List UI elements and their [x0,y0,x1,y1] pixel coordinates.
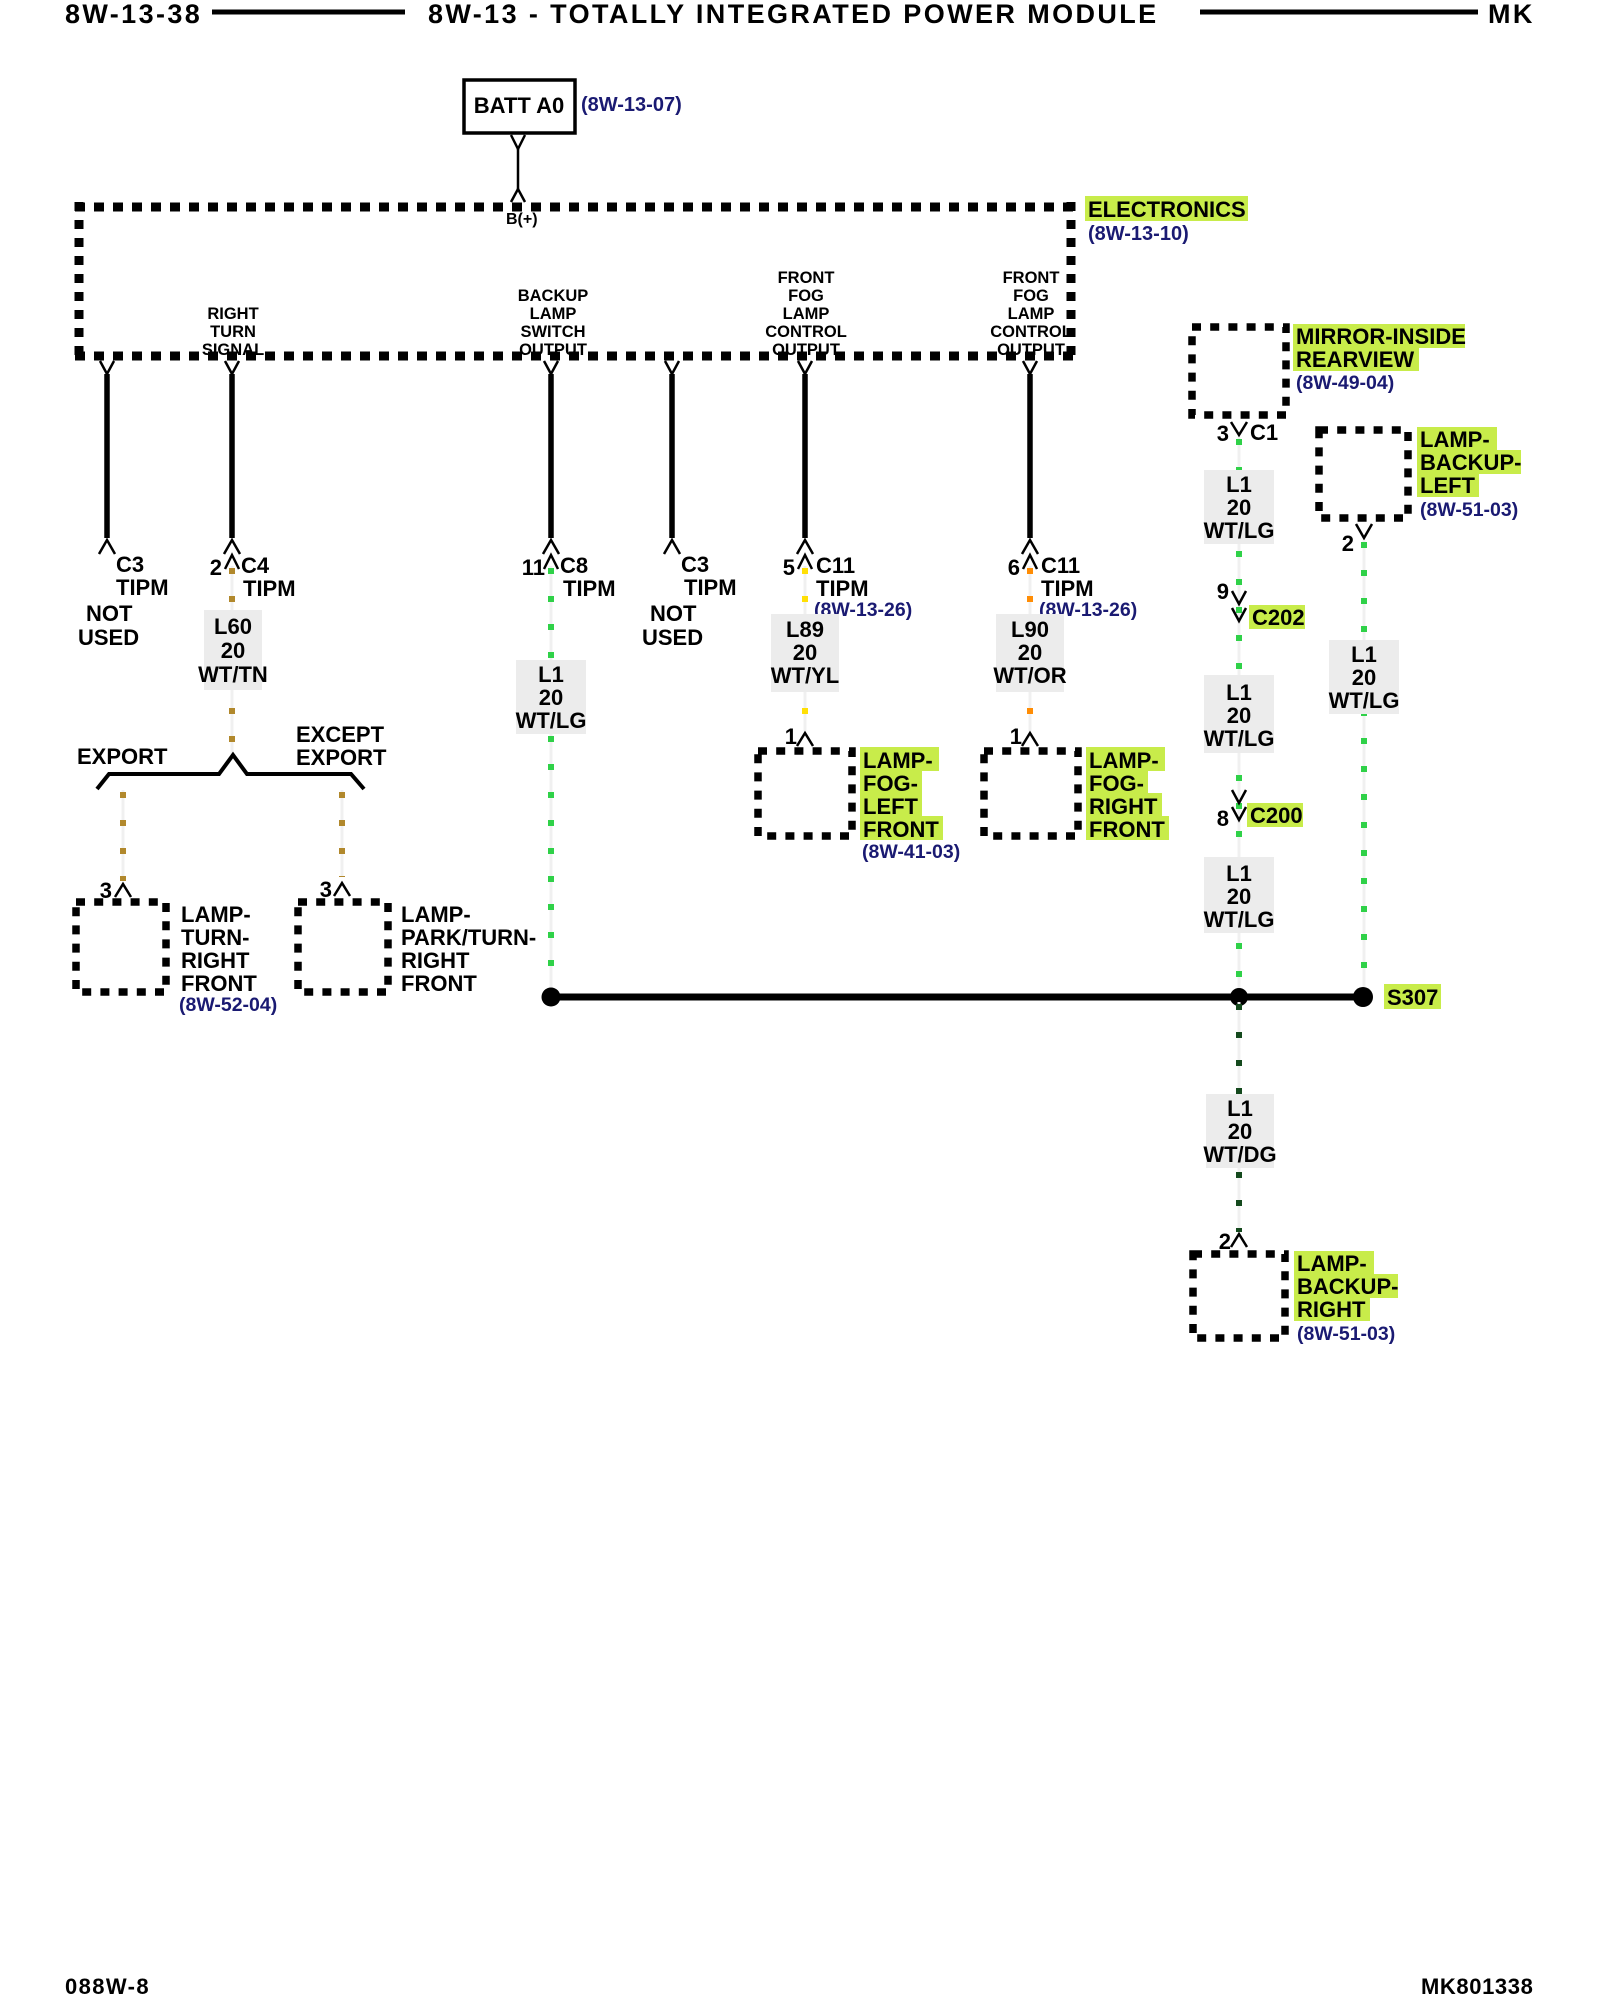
svg-text:L90: L90 [1011,617,1049,642]
wire C3 stub 2 (not used): female V at TIPM [665,361,679,374]
wire L1 20 WT/DG to backup-right [1238,1002,1241,1232]
svg-text:RIGHT: RIGHT [401,948,470,973]
svg-text:NOT: NOT [650,601,697,626]
svg-text:TIPM: TIPM [1041,576,1094,601]
svg-text:SIGNAL: SIGNAL [202,341,264,359]
wire L1 20 WT/LG mirror to S307 [1238,437,1241,994]
svg-text:20: 20 [1228,1119,1252,1144]
svg-text:LAMP: LAMP [1008,305,1055,323]
wire L90 20 WT/OR [1029,566,1032,731]
wire branch to lamp-park/turn-right-front [341,790,344,877]
svg-text:WT/LG: WT/LG [516,708,587,733]
svg-text:WT/TN: WT/TN [198,662,268,687]
svg-text:20: 20 [793,640,817,665]
svg-text:L60: L60 [214,614,252,639]
wire label L1 20 WT/LG (segment 1) [1204,470,1274,544]
header rule right [1200,10,1478,15]
svg-text:C8: C8 [560,553,588,578]
TIPM dashed box right edge [1067,202,1076,360]
male arrow into lamp-backup-right [1231,1234,1247,1247]
svg-text:8W-13-38: 8W-13-38 [65,0,202,29]
svg-text:1: 1 [1010,724,1022,749]
svg-text:CONTROL: CONTROL [765,323,847,341]
svg-text:L1: L1 [1226,861,1252,886]
svg-text:BACKUP: BACKUP [518,287,589,305]
wire C8 backup lamp stub: male arrow lower [543,540,559,554]
component box LAMP-BACKUP-LEFT [1319,430,1408,518]
svg-text:C3: C3 [116,552,144,577]
svg-text:BACKUP-: BACKUP- [1420,450,1521,475]
svg-text:LAMP-: LAMP- [1420,427,1490,452]
female V under mirror box [1231,422,1247,435]
svg-text:FRONT: FRONT [778,269,835,287]
svg-text:MK801338: MK801338 [1421,1974,1533,1999]
svg-text:LAMP: LAMP [783,305,830,323]
splice brace [97,755,364,789]
svg-text:088W-8: 088W-8 [65,1974,150,1999]
svg-text:FOG-: FOG- [863,771,918,796]
svg-text:2: 2 [1219,1229,1231,1254]
svg-text:TURN-: TURN- [181,925,249,950]
svg-text:C200: C200 [1250,803,1303,828]
svg-text:6: 6 [1008,555,1020,580]
splice bus S307 [551,994,1363,1001]
component box LAMP-TURN-RIGHT FRONT [76,902,166,992]
wire label L1 20 WT/LG (C8 branch) [516,660,586,734]
battery feed box BATT A0 [464,80,575,133]
svg-text:L89: L89 [786,617,824,642]
junction dot right [1353,987,1373,1007]
junction dot left [542,988,561,1007]
TIPM dashed box left edge [75,202,84,360]
svg-text:S307: S307 [1387,985,1438,1010]
svg-text:BATT A0: BATT A0 [474,93,564,118]
wire B(+) vertical [517,149,520,190]
svg-text:FRONT: FRONT [401,971,477,996]
svg-text:(8W-51-03): (8W-51-03) [1297,1323,1395,1345]
wire C11 fog right stub: mating arrow [1023,555,1037,569]
svg-text:8W-13 - TOTALLY INTEGRATED POW: 8W-13 - TOTALLY INTEGRATED POWER MODULE [428,0,1159,29]
wire C11 fog right stub: female V at TIPM [1023,361,1037,374]
svg-text:MIRROR-INSIDE: MIRROR-INSIDE [1296,324,1466,349]
svg-text:EXPORT: EXPORT [296,745,387,770]
svg-text:(8W-13-07): (8W-13-07) [581,94,682,116]
svg-text:20: 20 [1227,884,1251,909]
svg-text:20: 20 [1227,703,1251,728]
svg-text:2: 2 [210,555,222,580]
component box LAMP-FOG-RIGHT FRONT [984,751,1078,836]
connector C200 upper half [1232,790,1246,803]
wire C3 stub (not used): female V at TIPM [100,361,114,374]
header rule left [212,10,405,15]
wire L60 20 WT/TN upper segment [231,566,234,757]
svg-text:LEFT: LEFT [1420,473,1476,498]
svg-text:RIGHT: RIGHT [1089,794,1158,819]
wire C11 fog right stub: male arrow lower [1022,540,1038,554]
wire label L89 20 WT/YL [771,614,839,692]
svg-text:C1: C1 [1250,420,1278,445]
wire L1 20 WT/LG from C8 to S307 [550,566,553,994]
svg-text:TIPM: TIPM [816,576,869,601]
svg-text:CONTROL: CONTROL [990,323,1072,341]
label ELECTRONICS (highlighted) [1085,196,1248,221]
component box MIRROR-INSIDE REARVIEW [1192,327,1286,415]
svg-text:LEFT: LEFT [863,794,919,819]
connector label C200 (highlighted) [1247,803,1303,827]
svg-text:NOT: NOT [86,601,133,626]
svg-text:USED: USED [642,625,703,650]
svg-text:OUTPUT: OUTPUT [997,341,1065,359]
svg-text:L1: L1 [1351,642,1377,667]
svg-text:FRONT: FRONT [863,817,939,842]
svg-text:(8W-41-03): (8W-41-03) [862,841,960,863]
wire label L1 20 WT/DG [1206,1094,1274,1168]
svg-text:FRONT: FRONT [181,971,257,996]
svg-text:WT/LG: WT/LG [1204,907,1275,932]
svg-text:WT/LG: WT/LG [1204,726,1275,751]
svg-text:20: 20 [1018,640,1042,665]
svg-text:RIGHT: RIGHT [181,948,250,973]
label LAMP-BACKUP-LEFT (highlighted) [1417,427,1497,451]
wire C11 fog left stub: female V at TIPM [798,361,812,374]
svg-text:FOG-: FOG- [1089,771,1144,796]
wire C11 fog left stub: heavy conductor [802,374,808,538]
splice label S307 (highlighted) [1384,984,1441,1009]
TIPM dashed box top edge [75,203,1075,212]
svg-text:BACKUP-: BACKUP- [1297,1274,1398,1299]
svg-text:TIPM: TIPM [563,576,616,601]
svg-text:RIGHT: RIGHT [207,305,258,323]
svg-text:LAMP-: LAMP- [1089,748,1159,773]
svg-text:L1: L1 [538,662,564,687]
svg-text:FRONT: FRONT [1089,817,1165,842]
junction dot middle [1230,988,1248,1006]
svg-text:WT/LG: WT/LG [1204,518,1275,543]
svg-text:LAMP-: LAMP- [401,902,471,927]
wire L1 20 WT/LG backup-left to S307 [1363,540,1366,994]
male arrow into lamp-fog-left-front [797,733,813,746]
svg-text:ELECTRONICS: ELECTRONICS [1088,197,1246,222]
svg-text:C202: C202 [1252,605,1305,630]
svg-text:8: 8 [1217,806,1229,831]
wire C3 stub (not used): heavy conductor [104,374,110,538]
wire label L1 20 WT/LG (segment 3) [1204,857,1274,933]
svg-text:9: 9 [1217,579,1229,604]
label LAMP-FOG-RIGHT FRONT (highlighted) [1086,747,1165,771]
svg-text:RIGHT: RIGHT [1297,1297,1366,1322]
svg-text:OUTPUT: OUTPUT [772,341,840,359]
svg-text:OUTPUT: OUTPUT [519,341,587,359]
wire label L60 20 WT/TN [204,610,262,690]
wire branch to lamp-turn-right-front [122,790,125,881]
svg-text:C3: C3 [681,552,709,577]
component box LAMP-BACKUP-RIGHT [1193,1254,1285,1338]
wire C4 right turn stub: mating arrow [225,555,239,569]
svg-text:LAMP: LAMP [530,305,577,323]
svg-text:TURN: TURN [210,323,256,341]
svg-text:WT/OR: WT/OR [993,663,1066,688]
svg-text:LAMP-: LAMP- [863,748,933,773]
svg-text:TIPM: TIPM [116,575,169,600]
connector C202 upper half [1232,591,1246,604]
wire L89 20 WT/YL [804,566,807,731]
female V under backup-left box [1356,524,1372,538]
svg-text:(8W-49-04): (8W-49-04) [1296,372,1394,394]
svg-text:C11: C11 [816,553,855,578]
component box LAMP-PARK/TURN-RIGHT FRONT [298,902,388,992]
svg-text:11: 11 [522,555,545,580]
svg-text:B(+): B(+) [506,211,538,228]
connector label C202 (highlighted) [1249,605,1305,629]
label MIRROR-INSIDE REARVIEW (highlighted) [1293,324,1465,348]
svg-text:2: 2 [1342,531,1354,556]
svg-text:WT/YL: WT/YL [771,663,839,688]
connector C200 lower half [1232,807,1246,820]
svg-text:(8W-51-03): (8W-51-03) [1420,499,1518,521]
svg-text:WT/LG: WT/LG [1329,688,1400,713]
svg-text:FRONT: FRONT [1003,269,1060,287]
svg-text:FOG: FOG [1013,287,1049,305]
svg-text:C11: C11 [1041,553,1080,578]
wire C11 fog left stub: male arrow lower [797,540,813,554]
label LAMP-FOG-LEFT FRONT (highlighted) [860,747,939,771]
wire C11 fog right stub: heavy conductor [1027,374,1033,538]
wire label L90 20 WT/OR [996,614,1064,692]
svg-text:20: 20 [539,685,563,710]
svg-text:EXCEPT: EXCEPT [296,722,385,747]
male arrow into lamp-park/turn-right-front [334,883,350,896]
svg-text:L1: L1 [1227,1096,1253,1121]
svg-text:LAMP-: LAMP- [181,902,251,927]
wire C4 right turn stub: female V at TIPM [225,361,239,374]
svg-text:L1: L1 [1226,472,1252,497]
svg-text:WT/DG: WT/DG [1203,1142,1276,1167]
svg-text:TIPM: TIPM [684,575,737,600]
TIPM dashed box bottom edge [75,352,1075,361]
component box LAMP-FOG-LEFT FRONT [758,751,852,836]
male arrow into lamp-fog-right-front [1022,733,1038,746]
svg-text:(8W-13-10): (8W-13-10) [1088,223,1189,245]
svg-text:TIPM: TIPM [243,576,296,601]
wire C4 right turn stub: male arrow lower [224,540,240,554]
connector C202 lower half [1232,608,1246,621]
svg-text:SWITCH: SWITCH [520,323,585,341]
wire C3 stub 2 (not used): heavy conductor [669,374,675,538]
male arrow into lamp-turn-right-front [115,884,131,897]
svg-text:USED: USED [78,625,139,650]
svg-text:20: 20 [1227,495,1251,520]
wire C8 backup lamp stub: mating arrow [544,555,558,569]
connector half: female V at BATT A0 [511,135,525,149]
svg-text:1: 1 [785,724,797,749]
svg-text:EXPORT: EXPORT [77,744,168,769]
svg-text:C4: C4 [241,553,270,578]
svg-text:L1: L1 [1226,680,1252,705]
svg-text:FOG: FOG [788,287,824,305]
svg-text:PARK/TURN-: PARK/TURN- [401,925,536,950]
svg-text:(8W-52-04): (8W-52-04) [179,994,277,1016]
wire C3 stub 2 (not used): male arrow lower [664,540,680,554]
wire label L1 20 WT/LG (segment 2) [1204,675,1274,753]
svg-text:5: 5 [783,555,795,580]
wire C8 backup lamp stub: heavy conductor [548,374,554,538]
svg-text:3: 3 [1217,421,1229,446]
wire C8 backup lamp stub: female V at TIPM [544,361,558,374]
connector half: male arrow into TIPM [511,189,525,202]
label LAMP-BACKUP-RIGHT (highlighted) [1294,1251,1374,1275]
svg-text:MK: MK [1488,0,1535,29]
svg-text:LAMP-: LAMP- [1297,1251,1367,1276]
wire C11 fog left stub: mating arrow [798,555,812,569]
svg-text:REARVIEW: REARVIEW [1296,347,1414,372]
wire C4 right turn stub: heavy conductor [229,374,235,538]
svg-text:20: 20 [221,638,245,663]
svg-text:20: 20 [1352,665,1376,690]
wire label L1 20 WT/LG (backup-left) [1329,640,1399,714]
wire C3 stub (not used): male arrow lower [99,540,115,554]
